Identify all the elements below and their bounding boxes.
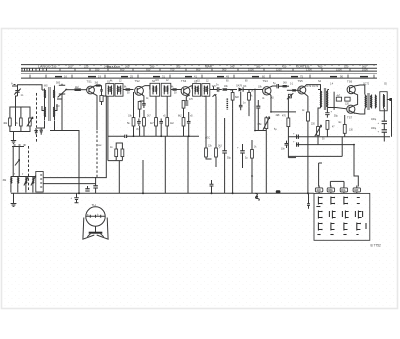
wire TS7 collector bbox=[354, 109, 365, 115]
svg-text:DRAAGV.: DRAAGV. bbox=[107, 65, 121, 69]
output transformer box bbox=[380, 92, 387, 111]
trimmer resistor R3 bbox=[29, 118, 32, 126]
svg-text:GO: GO bbox=[317, 188, 321, 192]
wire TS3 emitter cluster bbox=[186, 95, 189, 100]
dial lower scale number row bbox=[64, 75, 343, 79]
wire secondary to TS6 base bbox=[328, 89, 329, 91]
wire left drop bbox=[16, 96, 18, 118]
trimmer R27 bbox=[288, 94, 291, 98]
wires cluster A bbox=[134, 92, 145, 136]
trimmer C1 bbox=[14, 89, 21, 95]
svg-text:200: 200 bbox=[68, 64, 73, 68]
lower left frame wire bbox=[50, 131, 79, 194]
svg-text:300: 300 bbox=[176, 64, 181, 68]
svg-text:TS6: TS6 bbox=[347, 80, 353, 84]
resistor R22 bbox=[307, 112, 310, 121]
gang link dashed bbox=[96, 100, 98, 177]
switch unit box bbox=[314, 193, 370, 240]
wire bias row bottom bbox=[10, 126, 30, 132]
resistor R10 bbox=[166, 118, 169, 126]
transistor TS4 bbox=[263, 87, 271, 95]
wire supply rail mid2 bbox=[296, 144, 354, 146]
switch contacts column 2 bbox=[329, 197, 335, 235]
svg-text:OA79: OA79 bbox=[236, 85, 243, 88]
aerial terminal A bbox=[12, 83, 17, 86]
trimmer L6 bbox=[24, 176, 29, 186]
svg-text:650: 650 bbox=[146, 67, 151, 71]
resistor R18 bbox=[287, 118, 290, 127]
dial number row upper bbox=[52, 64, 368, 71]
wire af bus bbox=[288, 155, 342, 157]
IF transformer S2 can left bbox=[150, 83, 160, 96]
ground G2 bbox=[11, 193, 17, 206]
fuse S on rail bbox=[256, 193, 260, 200]
IF transformer S1 can right bbox=[115, 84, 123, 97]
coil adjust arrow bbox=[15, 160, 20, 166]
capacitor C3 bbox=[40, 130, 43, 132]
switch contacts column 1 bbox=[316, 197, 322, 235]
wire af bias bbox=[271, 111, 296, 113]
wire TS3 collector bbox=[189, 86, 192, 89]
wire TS4 emitter bbox=[269, 95, 272, 99]
speaker terminals line bbox=[86, 215, 105, 218]
shield can box bbox=[36, 172, 43, 193]
wire ntc column bbox=[341, 137, 343, 157]
switch contacts column 4 bbox=[355, 198, 366, 235]
wire secondary centre bbox=[333, 92, 335, 110]
resistor R5 emitter TS2 bbox=[138, 102, 141, 110]
svg-text:100µ: 100µ bbox=[371, 128, 377, 130]
wire IF1 return column bbox=[108, 96, 116, 160]
svg-text:OC72 OC72: OC72 OC72 bbox=[305, 85, 319, 88]
output choke winding 3 bbox=[375, 95, 376, 109]
resistor R9 bbox=[155, 118, 158, 126]
svg-text:TS4: TS4 bbox=[263, 79, 269, 83]
svg-text:900: 900 bbox=[222, 67, 227, 71]
resistor R2 bbox=[20, 118, 23, 126]
IF transformer S3 can left bbox=[193, 84, 201, 97]
capacitor C9 bbox=[217, 87, 222, 91]
wire switch feed 2 bbox=[329, 181, 331, 186]
resistor R19 bbox=[205, 148, 208, 157]
speaker circle bbox=[86, 207, 105, 226]
svg-text:MG: MG bbox=[44, 86, 48, 88]
resistor R17 bbox=[283, 85, 287, 87]
osc coil L5 bbox=[18, 177, 19, 185]
capacitor C12 bbox=[256, 106, 260, 108]
wire TS1 emitter drop bbox=[94, 94, 98, 130]
resistor R1 bbox=[9, 118, 12, 126]
wire AF link bbox=[288, 157, 296, 159]
dial scale lower line bbox=[21, 73, 377, 75]
wire switch feed right bbox=[354, 145, 358, 187]
wires det verticals bbox=[255, 90, 288, 194]
driver transformer S4 primary bbox=[321, 90, 322, 109]
svg-text:800: 800 bbox=[196, 67, 201, 71]
svg-text:190: 190 bbox=[52, 64, 57, 68]
resistor R15 vertical bbox=[231, 93, 234, 101]
volume pot P1 bbox=[265, 118, 268, 129]
svg-text:MG: MG bbox=[328, 188, 332, 192]
svg-text:KG: KG bbox=[341, 188, 345, 192]
speaker mount right bbox=[97, 218, 108, 240]
wire gang to TS1 bbox=[61, 83, 63, 85]
wire switch feed 1 bbox=[318, 163, 320, 187]
wire supply rail mid1 bbox=[288, 136, 390, 138]
svg-text:380: 380 bbox=[256, 64, 261, 68]
speaker center stem bbox=[95, 226, 97, 232]
svg-text:260: 260 bbox=[125, 64, 130, 68]
switch stubs bbox=[319, 186, 357, 194]
resistor R28 bbox=[336, 97, 341, 101]
transistor TS6 bbox=[347, 86, 355, 94]
svg-text:TS7: TS7 bbox=[347, 116, 353, 120]
resistor R4 bbox=[75, 88, 81, 91]
capacitor C22 on rail bbox=[85, 189, 89, 191]
capacitor C21 osc bbox=[93, 186, 98, 188]
output choke core bbox=[367, 93, 369, 110]
svg-text:1500: 1500 bbox=[336, 67, 342, 71]
osc coil L4 bbox=[11, 177, 12, 185]
capacitor C7 bbox=[159, 119, 163, 127]
svg-text:700: 700 bbox=[170, 67, 175, 71]
wire TS2 emitter bbox=[143, 95, 144, 101]
IF transformer S1 can left bbox=[106, 84, 114, 97]
wire TS4 collector bbox=[270, 86, 277, 87]
resistor R16 vertical bbox=[248, 93, 251, 101]
output choke winding 1 bbox=[365, 95, 366, 109]
capacitor C11 bbox=[277, 84, 283, 88]
lower coil top taps bbox=[12, 145, 26, 147]
svg-text:TS5: TS5 bbox=[298, 79, 304, 83]
junction dots rail bbox=[232, 192, 234, 194]
choke L3 bbox=[100, 86, 103, 96]
junction node af bbox=[270, 111, 272, 113]
ferrite rod dashed upper bbox=[36, 93, 38, 142]
switch contacts column 3 bbox=[342, 197, 348, 235]
wire S2 to TS3 bbox=[171, 89, 181, 91]
wire columns to rail bbox=[143, 136, 188, 193]
resistor R23 bbox=[317, 127, 320, 136]
svg-text:1000: 1000 bbox=[248, 67, 254, 71]
capacitor C15 electrolytic bbox=[240, 151, 245, 153]
wire S1 to TS2 bbox=[123, 89, 134, 91]
svg-text:600: 600 bbox=[120, 67, 125, 71]
svg-text:50µ: 50µ bbox=[227, 158, 232, 160]
capacitor C14 electrolytic bbox=[222, 151, 227, 153]
svg-text:A: A bbox=[11, 82, 13, 86]
capacitor C2 bbox=[34, 131, 38, 133]
dial tick marks mid row bbox=[60, 69, 350, 72]
junction node det bbox=[254, 89, 256, 91]
AGC bus wire bbox=[127, 135, 200, 137]
wire coil bottoms bbox=[42, 106, 45, 111]
button label GR bbox=[353, 188, 360, 192]
svg-text:1100: 1100 bbox=[276, 67, 282, 71]
svg-text:280: 280 bbox=[150, 64, 155, 68]
button label MG bbox=[327, 188, 334, 192]
wire to ground G1 bbox=[13, 132, 15, 141]
svg-text:4k8: 4k8 bbox=[276, 114, 281, 117]
DIAL SCALE BAND bbox=[21, 64, 377, 78]
transistor TS2 bbox=[135, 86, 144, 95]
capacitor C19 electrolytic bbox=[382, 121, 387, 123]
wire osc row top bbox=[11, 176, 36, 178]
junction dots bbox=[133, 135, 135, 137]
value labels scatter bbox=[3, 80, 388, 182]
svg-text:TS3: TS3 bbox=[181, 79, 187, 83]
resistor R24 bbox=[326, 121, 329, 130]
capacitor C25 bbox=[297, 135, 299, 139]
junction dots on rail bbox=[78, 192, 80, 194]
resistor R14 bbox=[223, 88, 228, 90]
wire into block left bbox=[307, 193, 310, 208]
resistor R26 base TS5 bbox=[292, 89, 296, 91]
wire osc out upper bbox=[43, 96, 106, 178]
IF transformer S2 can right bbox=[161, 83, 171, 96]
resistor R7 base bias TS2 bbox=[132, 118, 135, 126]
wire TS5 emitter bbox=[305, 94, 308, 112]
svg-text:420: 420 bbox=[282, 64, 287, 68]
antenna coil core bbox=[48, 87, 50, 121]
button label KG bbox=[340, 188, 347, 192]
wire bias row top bbox=[10, 107, 30, 118]
resistor R6 bbox=[182, 101, 185, 109]
ground G1 bbox=[11, 141, 16, 144]
svg-text:TS1: TS1 bbox=[87, 80, 93, 84]
resistor R8 bbox=[143, 118, 146, 126]
button label GO bbox=[315, 188, 322, 192]
transistor TS3 bbox=[181, 87, 190, 96]
wire TS6 collector bbox=[355, 85, 365, 95]
capacitor C23 below rail bbox=[74, 193, 79, 203]
resistor R12 bbox=[115, 149, 118, 157]
svg-text:550: 550 bbox=[95, 67, 100, 71]
wires cluster C bbox=[184, 112, 189, 136]
capacitor C18 bbox=[325, 108, 329, 118]
capacitor C5 bbox=[142, 101, 146, 108]
wire ts5 emitter column to rail bbox=[307, 121, 309, 193]
capacitor C26 bbox=[297, 142, 299, 146]
transistor TS5 bbox=[298, 86, 306, 94]
wire driver in bbox=[318, 89, 321, 91]
dial scale mid line bbox=[21, 67, 377, 69]
NTC R25 bbox=[343, 125, 346, 134]
speaker mount left bbox=[83, 218, 94, 240]
speaker magnet bar bbox=[89, 232, 103, 234]
svg-text:1300: 1300 bbox=[306, 67, 312, 71]
wire secondary to TS7 base bbox=[328, 108, 348, 109]
output transformer winding bbox=[384, 94, 385, 109]
dial scale top line bbox=[21, 64, 377, 66]
wire aerial top bbox=[18, 85, 43, 90]
svg-text:B 7T52: B 7T52 bbox=[371, 244, 382, 248]
resistor R13 bbox=[121, 149, 124, 157]
output choke winding 2 bbox=[370, 95, 371, 109]
svg-text:50µ: 50µ bbox=[334, 116, 339, 118]
wire det to TS4 bbox=[255, 89, 263, 91]
capacitor C10 bbox=[239, 103, 243, 110]
svg-text:1600: 1600 bbox=[362, 67, 368, 71]
svg-text:TS2: TS2 bbox=[135, 79, 141, 83]
wires cluster B bbox=[156, 96, 167, 136]
svg-text:340: 340 bbox=[230, 64, 235, 68]
wire S3 to detector bbox=[210, 89, 217, 91]
tuning gang C4 bbox=[58, 85, 68, 97]
capacitor C6 bbox=[137, 119, 141, 127]
wire switch feed 3 bbox=[343, 181, 345, 186]
svg-text:240: 240 bbox=[104, 64, 109, 68]
resistor R11 bbox=[182, 118, 185, 126]
svg-text:GR: GR bbox=[354, 188, 358, 192]
capacitor C8 bbox=[187, 119, 191, 127]
antenna coil L2 secondary bbox=[53, 89, 54, 121]
wire TS1 collector bbox=[94, 86, 102, 87]
ferrite rod dashed lower bbox=[28, 146, 30, 190]
wire coil left bbox=[13, 147, 19, 177]
svg-text:500: 500 bbox=[56, 81, 61, 84]
IF transformer S3 can right bbox=[202, 84, 210, 97]
diode D1 bbox=[239, 88, 244, 92]
capacitor C24 bbox=[210, 180, 214, 193]
main ground rail bbox=[11, 192, 314, 194]
wire TS5 collector to driver bbox=[305, 85, 321, 90]
svg-text:460: 460 bbox=[318, 64, 323, 68]
resistor R21 bbox=[251, 150, 254, 159]
wire coil bottoms to rail bbox=[11, 177, 33, 193]
resistor R20 bbox=[215, 148, 218, 157]
wire TS2 collector bbox=[143, 86, 150, 90]
wire OT output bbox=[387, 99, 390, 101]
dial dense tick group left bbox=[22, 68, 47, 70]
wire coil top links bbox=[42, 89, 45, 91]
resistor R29 bbox=[345, 97, 350, 101]
antenna coil L1 primary bbox=[45, 89, 46, 121]
capacitor C13 tone bbox=[285, 141, 289, 148]
svg-text:LANGG.: LANGG. bbox=[38, 65, 52, 69]
wire emitters common bbox=[354, 93, 358, 105]
dial scale bottom line bbox=[21, 77, 377, 79]
trimmer L7 bbox=[31, 176, 36, 186]
driver transformer secondary bbox=[326, 90, 327, 109]
wire column TS4 base bbox=[214, 86, 250, 193]
driver transformer core bbox=[323, 88, 325, 110]
transistor TS7 bbox=[347, 105, 355, 113]
capacitor C27 bbox=[125, 135, 127, 138]
transistor TS1 bbox=[87, 86, 95, 94]
svg-text:100µ: 100µ bbox=[371, 119, 377, 121]
dial lower scale dark segments bbox=[55, 76, 368, 78]
dial lower ticks bbox=[30, 75, 374, 79]
svg-text:520: 520 bbox=[344, 64, 349, 68]
svg-text:220: 220 bbox=[84, 64, 89, 68]
capacitor C20 electrolytic bbox=[382, 130, 387, 132]
wire osc out lower bbox=[43, 183, 95, 185]
